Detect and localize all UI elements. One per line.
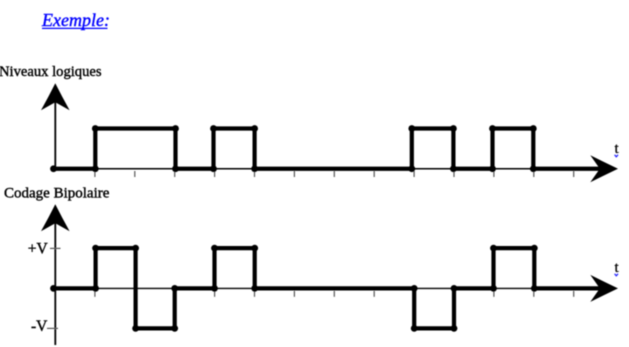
tick -V level xyxy=(47,327,58,329)
waveform bipolar coding (bottom) xyxy=(53,248,600,328)
vertex dots (top waveform) xyxy=(50,125,537,172)
vertex dots (bottom waveform) xyxy=(50,245,538,332)
arrowhead up (top Y axis) xyxy=(41,83,70,110)
svg-text:+V: +V xyxy=(28,241,49,258)
svg-text:Codage Bipolaire: Codage Bipolaire xyxy=(4,185,110,201)
svg-text:t: t xyxy=(615,141,620,157)
axis Y (top diagram) xyxy=(54,98,56,170)
title Exemple: xyxy=(41,10,110,30)
svg-text:-V: -V xyxy=(31,318,48,335)
wavy spell underline (top t) xyxy=(615,155,618,157)
ticks (top time axis) xyxy=(95,171,574,177)
axis X (top diagram, time axis) xyxy=(55,168,601,170)
waveform logic levels (top) xyxy=(53,129,600,169)
axis Y (bottom diagram) xyxy=(54,221,56,345)
label Niveaux logiques xyxy=(0,64,102,80)
svg-text:Niveaux logiques: Niveaux logiques xyxy=(0,64,102,80)
svg-text:t: t xyxy=(615,260,620,276)
tick +V level xyxy=(50,247,61,249)
arrowhead right (bottom time axis) xyxy=(590,275,618,302)
svg-text:Exemple:: Exemple: xyxy=(41,10,110,30)
ticks (bottom time axis) xyxy=(95,291,574,297)
wavy spell underline (bottom t) xyxy=(615,274,618,276)
arrowhead up (bottom Y axis) xyxy=(41,204,70,231)
axis X (bottom diagram, time axis) xyxy=(55,287,601,289)
arrowhead right (top time axis) xyxy=(590,155,618,182)
